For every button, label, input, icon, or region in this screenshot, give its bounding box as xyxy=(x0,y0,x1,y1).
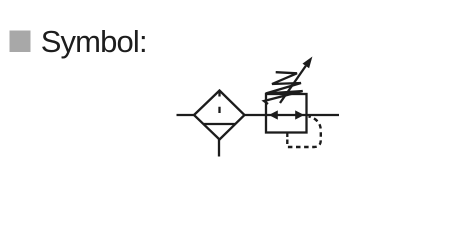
wire outlet xyxy=(307,114,340,116)
regulator flow path line xyxy=(266,114,307,116)
filter drain separator (chord) xyxy=(204,123,236,125)
right arrowhead of regulator flow arrow xyxy=(295,110,304,119)
left arrowhead of regulator flow arrow xyxy=(269,110,278,119)
pilot line solid stub xyxy=(286,133,288,138)
filter drain line xyxy=(218,140,220,157)
regulator body (square) xyxy=(266,94,307,133)
filter element (dashed vertical line) xyxy=(218,91,220,114)
svg-text:Symbol:: Symbol: xyxy=(41,24,147,59)
adjustment arrow head xyxy=(303,57,313,69)
adjustment arrow shaft xyxy=(280,66,306,103)
wire between filter and regulator xyxy=(245,114,267,116)
wire inlet xyxy=(177,114,195,116)
pilot feedback line (dashed) xyxy=(287,116,321,147)
section bullet square xyxy=(10,31,31,53)
filter body (diamond) xyxy=(194,91,245,140)
regulator spring (zigzag) xyxy=(264,72,303,104)
